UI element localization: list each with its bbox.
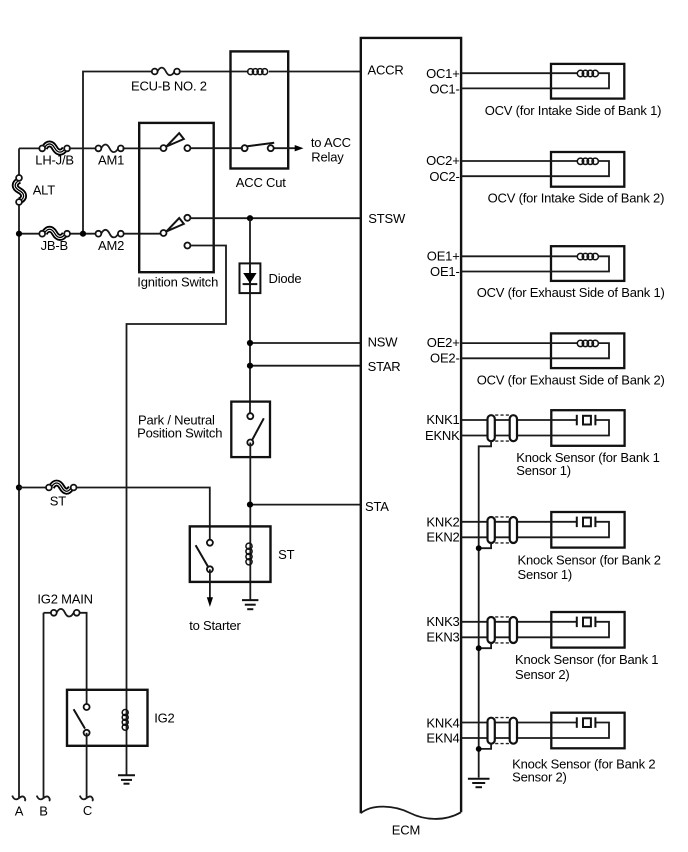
junction dot ST fuse tap on left rail bbox=[16, 484, 22, 490]
wire ignition ST contact to IG2 relay coil bbox=[127, 246, 227, 775]
svg-text:ECM: ECM bbox=[392, 823, 420, 838]
wire OCV 3 plus lead bbox=[461, 255, 577, 257]
svg-text:Position Switch: Position Switch bbox=[137, 426, 222, 441]
ECM pin label KNK2 bbox=[426, 515, 459, 530]
ECM pin label OC1- bbox=[429, 82, 459, 97]
ECM pin label OE2- bbox=[430, 351, 460, 366]
fuse ECU-B NO. 2 bbox=[131, 68, 207, 94]
svg-text:STAR: STAR bbox=[368, 359, 401, 374]
wire ignition AM1 contact to ACC Cut switch bbox=[190, 147, 243, 149]
fusible link ST bbox=[46, 483, 77, 508]
fuse AM1 bbox=[96, 145, 125, 168]
svg-text:Sensor 1): Sensor 1) bbox=[518, 567, 573, 582]
knock sensor 4 box bbox=[512, 713, 655, 785]
solenoid OCV box 4 bbox=[477, 333, 665, 387]
wire KNK4 lead bbox=[461, 722, 577, 724]
relay IG2 box bbox=[67, 690, 175, 746]
svg-text:ST: ST bbox=[50, 493, 66, 508]
piezo element knock sensor 2 bbox=[577, 517, 596, 528]
coil OCV 1 bbox=[577, 70, 598, 76]
fuse AM2 bbox=[96, 230, 125, 253]
wire shield drain row 1 to ground bbox=[479, 441, 491, 777]
shielded cable symbol row 2 bbox=[488, 517, 518, 543]
svg-text:Ignition Switch: Ignition Switch bbox=[137, 274, 218, 289]
switch Park / Neutral Position Switch bbox=[137, 402, 270, 458]
svg-text:ALT: ALT bbox=[33, 182, 56, 197]
wire EKN1 return lead bbox=[461, 420, 609, 436]
connector pin A bbox=[12, 796, 25, 819]
svg-text:OCV (for Exhaust Side of Bank: OCV (for Exhaust Side of Bank 2) bbox=[477, 373, 665, 388]
wire LH-J/B to AM1 bbox=[69, 147, 97, 149]
junction dot diode tap on STSW wire bbox=[247, 215, 253, 221]
wire shield drain stub row 3 bbox=[479, 643, 491, 648]
svg-text:KNK3: KNK3 bbox=[426, 614, 459, 629]
svg-text:LH-J/B: LH-J/B bbox=[35, 152, 74, 167]
junction dot JB-B left rail bbox=[16, 231, 22, 237]
wire OCV 4 plus lead bbox=[461, 342, 577, 344]
ground IG2 relay coil bbox=[118, 775, 135, 783]
ECM pin label EKN2 bbox=[426, 530, 459, 545]
svg-text:OE2+: OE2+ bbox=[427, 335, 460, 350]
coil ST relay bbox=[246, 543, 252, 565]
svg-text:KNK4: KNK4 bbox=[426, 715, 459, 730]
fusible link LH-J/B bbox=[35, 144, 74, 167]
connector pin C bbox=[80, 796, 93, 819]
wire pin B rail bbox=[43, 613, 45, 798]
knock sensor 2 box bbox=[518, 512, 661, 582]
svg-text:EKN3: EKN3 bbox=[426, 630, 459, 645]
ECM pin label EKNK bbox=[425, 428, 460, 443]
ground knock sensor shields bbox=[468, 779, 490, 787]
svg-text:EKN2: EKN2 bbox=[426, 530, 459, 545]
shielded cable symbol row 1 bbox=[488, 415, 518, 441]
coil ACC Cut relay bbox=[248, 69, 268, 75]
solenoid OCV box 1 bbox=[485, 64, 662, 118]
connector pin B bbox=[37, 796, 50, 819]
wire OCV 1 return lead bbox=[461, 73, 609, 88]
wire AM1 to ignition switch bbox=[123, 147, 164, 149]
svg-text:Sensor 2): Sensor 2) bbox=[512, 770, 567, 785]
wire EKN3 return lead bbox=[461, 622, 609, 638]
wire ECU-B branch vertical bbox=[83, 72, 153, 234]
svg-text:JB-B: JB-B bbox=[41, 238, 68, 253]
svg-text:ECU-B NO. 2: ECU-B NO. 2 bbox=[131, 79, 207, 94]
ECM pin label STA bbox=[365, 499, 389, 514]
svg-text:C: C bbox=[83, 803, 92, 818]
coil OCV 3 bbox=[577, 253, 598, 259]
svg-text:OC2-: OC2- bbox=[429, 169, 459, 184]
wire KNK3 lead bbox=[461, 621, 577, 623]
wire ECU-B fuse to ACC Cut coil bbox=[179, 71, 249, 73]
svg-text:ACCR: ACCR bbox=[368, 62, 404, 77]
solenoid OCV box 3 bbox=[477, 246, 665, 300]
ECM pin label KNK4 bbox=[426, 715, 459, 730]
knock sensor 1 box bbox=[516, 410, 659, 478]
svg-text:OC1+: OC1+ bbox=[426, 66, 460, 81]
svg-text:EKNK: EKNK bbox=[425, 428, 460, 443]
svg-text:Relay: Relay bbox=[311, 149, 344, 164]
ECM pin label OC2- bbox=[429, 169, 459, 184]
switch ACC Cut contact bbox=[242, 143, 296, 152]
ECM pin label STAR bbox=[368, 359, 401, 374]
svg-text:Sensor 2): Sensor 2) bbox=[515, 667, 570, 682]
relay ACC Cut box bbox=[231, 51, 289, 190]
ECM pin label OE2+ bbox=[427, 335, 460, 350]
solenoid OCV box 2 bbox=[488, 152, 665, 206]
relay IG2 switch contact bbox=[74, 704, 90, 736]
wire EKN4 return lead bbox=[461, 723, 609, 739]
svg-text:ACC Cut: ACC Cut bbox=[236, 175, 286, 190]
ground ST relay coil bbox=[242, 600, 258, 609]
ECM pin label EKN3 bbox=[426, 630, 459, 645]
ECM pin label EKN4 bbox=[426, 730, 459, 745]
svg-text:OE1+: OE1+ bbox=[427, 248, 460, 263]
piezo element knock sensor 1 bbox=[577, 415, 596, 426]
wire JB-B row bbox=[19, 233, 164, 235]
wire shield drain stub row 2 bbox=[479, 543, 491, 548]
svg-text:B: B bbox=[39, 803, 47, 818]
arrow to Starter bbox=[189, 569, 241, 633]
diode D1 bbox=[240, 263, 302, 293]
svg-text:A: A bbox=[15, 803, 24, 818]
ECM pin label STSW bbox=[368, 211, 406, 226]
svg-text:IG2 MAIN: IG2 MAIN bbox=[37, 592, 92, 607]
ECM pin label KNK3 bbox=[426, 614, 459, 629]
svg-text:Diode: Diode bbox=[269, 271, 302, 286]
ECM box with wavy bottom bbox=[361, 38, 461, 838]
fusible link JB-B bbox=[39, 229, 70, 253]
shielded cable symbol row 4 bbox=[488, 718, 518, 744]
ECM pin label OE1- bbox=[430, 264, 460, 279]
svg-text:KNK1: KNK1 bbox=[426, 412, 459, 427]
piezo element knock sensor 4 bbox=[577, 717, 596, 728]
coil IG2 relay bbox=[122, 710, 128, 731]
ignition switch contact AM1 (wedge lever) bbox=[161, 133, 191, 151]
ECM pin label OE1+ bbox=[427, 248, 460, 263]
wire NSW row bbox=[250, 342, 361, 344]
junction dot ECU-B branch at JB-B row bbox=[80, 231, 86, 237]
svg-text:to Starter: to Starter bbox=[189, 618, 241, 633]
junction dot STA tap bbox=[247, 502, 253, 508]
piezo element knock sensor 3 bbox=[577, 617, 596, 628]
wire KNK1 lead bbox=[461, 419, 577, 421]
wire STAR row bbox=[250, 365, 361, 367]
wire OCV 4 return lead bbox=[461, 343, 609, 358]
wire P/N switch down through ST relay coil to ground bbox=[249, 443, 251, 600]
wire OCV 2 return lead bbox=[461, 161, 609, 176]
wire ACC Cut coil to ECM pin ACCR bbox=[269, 71, 361, 73]
junction dot NSW tap bbox=[247, 340, 253, 346]
svg-text:OCV (for Exhaust Side of Bank: OCV (for Exhaust Side of Bank 1) bbox=[477, 285, 665, 300]
ECM pin label NSW bbox=[368, 335, 399, 350]
wire EKN2 return lead bbox=[461, 522, 609, 538]
svg-text:Knock Sensor (for Bank 1: Knock Sensor (for Bank 1 bbox=[515, 652, 658, 667]
fusible link ALT (vertical) bbox=[15, 175, 55, 205]
svg-text:OC2+: OC2+ bbox=[426, 153, 460, 168]
wire left battery rail (node A feed) bbox=[19, 148, 41, 798]
wire KNK2 lead bbox=[461, 521, 577, 523]
fuse IG2 MAIN bbox=[37, 592, 92, 705]
ECM pin label KNK1 bbox=[426, 412, 459, 427]
wire OCV 2 plus lead bbox=[461, 160, 577, 162]
shielded cable symbol row 3 bbox=[488, 617, 518, 643]
svg-text:OCV (for Intake Side of Bank 2: OCV (for Intake Side of Bank 2) bbox=[488, 191, 665, 206]
svg-text:STSW: STSW bbox=[368, 211, 406, 226]
ECM pin label OC1+ bbox=[426, 66, 460, 81]
svg-text:KNK2: KNK2 bbox=[426, 515, 459, 530]
svg-text:OCV (for Intake Side of Bank 1: OCV (for Intake Side of Bank 1) bbox=[485, 103, 662, 118]
coil OCV 4 bbox=[577, 340, 598, 346]
wire OCV 1 plus lead bbox=[461, 72, 577, 74]
svg-text:to ACC: to ACC bbox=[311, 135, 351, 150]
wire STA row bbox=[250, 504, 361, 506]
knock sensor 3 box bbox=[515, 612, 658, 682]
wire IG2 switch output to pin C bbox=[86, 733, 88, 798]
svg-text:OE2-: OE2- bbox=[430, 351, 460, 366]
relay ST switch contact bbox=[196, 540, 213, 573]
svg-text:NSW: NSW bbox=[368, 335, 399, 350]
svg-text:ST: ST bbox=[278, 547, 294, 562]
svg-text:Knock Sensor (for Bank 2: Knock Sensor (for Bank 2 bbox=[518, 553, 661, 568]
svg-text:STA: STA bbox=[365, 499, 389, 514]
coil OCV 2 bbox=[577, 158, 598, 164]
switch Ignition Switch box bbox=[137, 123, 218, 290]
wire shield drain stub row 4 bbox=[479, 744, 491, 749]
svg-text:OC1-: OC1- bbox=[429, 82, 459, 97]
svg-text:OE1-: OE1- bbox=[430, 264, 460, 279]
ECM pin label OC2+ bbox=[426, 153, 460, 168]
junction dot STAR tap bbox=[247, 363, 253, 369]
junction dot shield drain row 2 bbox=[476, 545, 482, 551]
junction dot shield drain row 3 bbox=[476, 645, 482, 651]
svg-text:EKN4: EKN4 bbox=[426, 730, 459, 745]
wire ST fuse row bbox=[19, 488, 210, 541]
relay ST box bbox=[190, 526, 295, 582]
arrow to ACC Relay bbox=[295, 135, 351, 164]
svg-text:Sensor 1): Sensor 1) bbox=[516, 463, 571, 478]
wire IG contact to ECM pin STSW bbox=[190, 217, 360, 219]
svg-text:AM2: AM2 bbox=[98, 238, 124, 253]
junction dot shield drain row 4 bbox=[476, 746, 482, 752]
ECM pin label ACCR bbox=[368, 62, 404, 77]
wire diode branch vertical to park/neutral switch bbox=[249, 218, 251, 414]
svg-text:IG2: IG2 bbox=[154, 710, 174, 725]
ignition switch contact AM2 (wedge lever) bbox=[161, 215, 191, 249]
svg-text:AM1: AM1 bbox=[98, 152, 124, 167]
wire OCV 3 return lead bbox=[461, 256, 609, 271]
